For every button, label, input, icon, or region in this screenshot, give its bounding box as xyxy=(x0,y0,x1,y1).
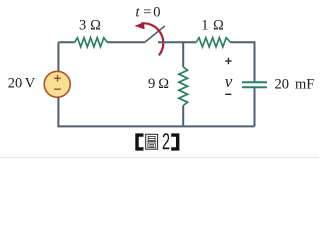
caption CJK character Tu (figure) outer box xyxy=(146,134,158,149)
wire: top segment from resistor to switch pivot xyxy=(107,41,144,43)
wire: switch right contact to 1-ohm resistor (through node A) xyxy=(158,41,196,43)
caption numeral 2 xyxy=(163,133,170,149)
label - (capacitor polarity) xyxy=(225,93,231,95)
caption CJK character inner top box midline xyxy=(148,137,155,139)
caption CJK character bottom box xyxy=(148,143,155,148)
voltage source plus symbol xyxy=(54,75,61,82)
resistor R3 1 ohm zigzag xyxy=(196,38,230,47)
wire: middle branch bottom lead xyxy=(182,106,184,127)
wire: left branch upper (corner down to source) xyxy=(57,42,59,71)
capacitor C1 bottom plate xyxy=(242,86,267,88)
wire: left branch lower (source down to bottom corner) xyxy=(57,97,59,126)
capacitor C1 top plate xyxy=(242,81,267,83)
svg-text:9Ω: 9Ω xyxy=(148,76,169,92)
faint page rule at bottom xyxy=(0,157,319,158)
resistor R1 3 ohm zigzag xyxy=(75,38,108,47)
resistor R2 9 ohm vertical zigzag xyxy=(179,67,188,106)
switch arrowhead xyxy=(135,22,145,29)
voltage source minus symbol xyxy=(54,88,61,90)
switch blade (opening) xyxy=(144,26,165,43)
svg-text:20mF: 20mF xyxy=(275,76,315,92)
svg-text:3Ω: 3Ω xyxy=(79,17,101,33)
label + (capacitor polarity) xyxy=(225,58,232,65)
wire: bottom horizontal segment xyxy=(57,125,254,127)
wire: middle branch top lead (node A down to 9-ohm) xyxy=(182,42,184,67)
caption closing bracket (lenticular) xyxy=(171,133,179,150)
caption CJK character middle stroke xyxy=(147,141,157,143)
svg-text:1Ω: 1Ω xyxy=(201,17,224,33)
caption CJK character innermost box xyxy=(150,144,153,146)
svg-text:20V: 20V xyxy=(8,76,36,92)
wire: right branch below capacitor xyxy=(254,88,256,126)
switch action arrow (red arc) xyxy=(141,23,163,55)
voltage source VS 20V circle xyxy=(44,71,70,97)
caption CJK character inner top box xyxy=(148,136,155,140)
svg-text:t=0: t=0 xyxy=(136,4,161,20)
svg-text:v: v xyxy=(225,72,233,91)
wire: top-left horizontal segment xyxy=(58,41,74,43)
caption opening bracket (lenticular) xyxy=(135,133,143,150)
wire: top-right segment to corner xyxy=(231,42,255,81)
